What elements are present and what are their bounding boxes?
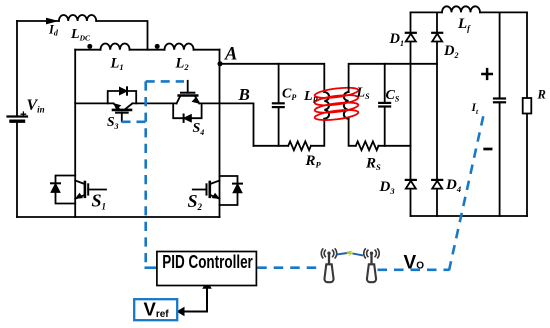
Vref box — [134, 299, 177, 320]
svg-text:A: A — [224, 45, 237, 65]
svg-text:D4: D4 — [445, 177, 461, 194]
battery plus mark — [21, 112, 25, 116]
output polarity plus — [482, 69, 491, 79]
svg-text:R: R — [537, 87, 546, 101]
wire: secondary bottom — [349, 119, 411, 146]
resistor RS — [356, 141, 379, 150]
antenna (receiver) — [364, 248, 379, 282]
wireless link icon — [337, 251, 364, 257]
wire: left leg of inverter — [74, 50, 76, 217]
wire: secondary top rail — [349, 64, 437, 92]
anti-parallel diode of S4 — [173, 103, 201, 122]
polarity dot L2 — [155, 44, 160, 49]
wire: rectifier bottom rail — [411, 215, 528, 217]
wire: rectifier top rail — [411, 11, 528, 13]
anti-parallel diode of S1 — [51, 176, 75, 204]
svg-text:RS: RS — [365, 155, 381, 172]
inductor Lf — [442, 6, 480, 12]
transistor S2 — [193, 181, 220, 199]
output polarity minus — [485, 148, 491, 151]
battery Vin — [8, 117, 28, 122]
anti-parallel diode of S3 — [108, 87, 137, 103]
svg-text:Lf: Lf — [457, 16, 471, 33]
svg-text:B: B — [238, 85, 250, 104]
capacitor CP — [273, 64, 284, 146]
wire: tank bottom primary — [254, 119, 325, 146]
svg-text:CP: CP — [282, 87, 296, 103]
wire: left vertical from source — [16, 21, 18, 217]
polarity dot L1 — [87, 44, 92, 49]
capacitor CS — [379, 64, 390, 146]
inductor L1 — [101, 44, 130, 50]
control signal dashed bus — [122, 81, 485, 270]
primary coil LP — [324, 92, 329, 119]
secondary coil LS — [344, 92, 349, 119]
wire: right leg from rail down through node A to S2 — [219, 50, 221, 217]
svg-text:Vin: Vin — [27, 97, 45, 115]
current arrow Id — [47, 18, 57, 23]
svg-text:S2: S2 — [188, 191, 203, 212]
diode D1 — [406, 33, 416, 42]
output capacitor — [494, 12, 505, 216]
wire: DC input top — [17, 21, 148, 50]
svg-text:Id: Id — [48, 23, 59, 38]
svg-text:D1: D1 — [389, 31, 404, 48]
PID controller box — [157, 252, 257, 286]
svg-text:LP: LP — [303, 89, 318, 105]
svg-text:RP: RP — [305, 153, 322, 170]
wire: node A rail to tank — [220, 64, 325, 92]
svg-text:L2: L2 — [175, 56, 190, 73]
svg-text:VO: VO — [404, 252, 425, 273]
svg-text:D3: D3 — [379, 179, 396, 196]
load resistor R — [523, 12, 532, 216]
inductor LDC — [59, 15, 96, 21]
svg-text:LDC: LDC — [70, 27, 91, 43]
svg-text:D2: D2 — [443, 43, 458, 60]
inductor L2 — [165, 44, 194, 50]
transistor S3 — [113, 103, 132, 121]
svg-text:PID Controller: PID Controller — [162, 252, 253, 272]
node A junction dot — [218, 61, 223, 66]
antenna (transmitter) — [321, 248, 336, 282]
diode D4 — [432, 180, 442, 189]
coupling flux (red winding) — [314, 86, 359, 122]
wire: rectifier second leg (D2/D4) — [436, 12, 438, 216]
control arrow PID to Vref — [177, 282, 211, 316]
svg-text:LS: LS — [356, 85, 371, 101]
wire: bottom rail left section — [17, 216, 220, 218]
wire: mid rail (S3/S4 row) — [75, 103, 253, 145]
svg-text:S1: S1 — [92, 190, 107, 211]
svg-text:It: It — [471, 102, 479, 116]
svg-text:L1: L1 — [110, 56, 124, 73]
anti-parallel diode of S2 — [220, 176, 243, 205]
resistor RP — [288, 141, 311, 150]
svg-text:S3: S3 — [107, 114, 119, 131]
svg-text:CS: CS — [386, 88, 400, 104]
transistor S4 — [177, 81, 200, 104]
wire: inverter top rail — [75, 49, 219, 51]
diode D2 — [432, 33, 442, 42]
diode D3 — [406, 180, 416, 189]
svg-text:S4: S4 — [193, 121, 205, 137]
wire: rectifier left leg (D1/D3) — [410, 12, 412, 216]
transistor S1 — [75, 181, 106, 199]
